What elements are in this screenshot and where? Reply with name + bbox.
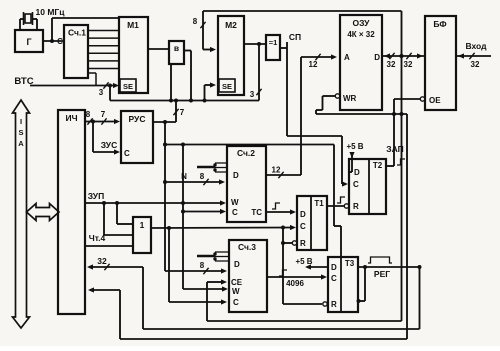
svg-text:OE: OE: [429, 96, 441, 105]
svg-text:БФ: БФ: [433, 19, 446, 29]
svg-text:W: W: [232, 287, 240, 296]
svg-text:D: D: [374, 53, 380, 62]
svg-text:CE: CE: [231, 278, 243, 287]
svg-text:ЗУП: ЗУП: [88, 191, 104, 201]
svg-text:32: 32: [404, 60, 413, 69]
svg-text:СП: СП: [289, 32, 301, 42]
svg-text:R: R: [353, 202, 359, 211]
svg-text:32: 32: [97, 256, 107, 266]
svg-text:10 МГц: 10 МГц: [36, 7, 66, 17]
svg-text:C: C: [124, 149, 130, 158]
svg-text:Т3: Т3: [345, 259, 355, 268]
svg-text:N: N: [181, 172, 187, 181]
svg-text:WR: WR: [343, 94, 357, 103]
svg-text:ТС: ТС: [251, 208, 262, 217]
svg-text:3: 3: [99, 88, 104, 97]
svg-text:+5 В: +5 В: [346, 142, 363, 151]
svg-text:C: C: [331, 274, 337, 283]
svg-text:Т1: Т1: [314, 199, 324, 208]
svg-text:Т2: Т2: [373, 161, 383, 170]
svg-text:12: 12: [309, 60, 318, 69]
svg-text:8: 8: [86, 110, 91, 119]
svg-text:C: C: [300, 222, 306, 231]
svg-text:R: R: [331, 300, 337, 309]
svg-text:32: 32: [387, 60, 396, 69]
svg-text:Сч.3: Сч.3: [238, 242, 256, 252]
svg-text:SE: SE: [123, 82, 133, 91]
svg-text:Г: Г: [26, 37, 31, 47]
svg-text:Чт.4: Чт.4: [89, 233, 106, 243]
svg-text:D: D: [300, 210, 306, 219]
svg-text:ИЧ: ИЧ: [65, 113, 77, 123]
svg-text:М1: М1: [127, 20, 139, 30]
svg-text:C: C: [353, 180, 359, 189]
svg-text:3: 3: [250, 90, 255, 99]
svg-text:=1: =1: [269, 38, 278, 47]
svg-text:32: 32: [471, 60, 480, 69]
svg-text:W: W: [231, 198, 239, 207]
svg-text:D: D: [233, 171, 239, 180]
svg-text:РУС: РУС: [129, 114, 146, 124]
svg-text:Сч.2: Сч.2: [237, 148, 255, 158]
svg-text:C: C: [233, 298, 239, 307]
svg-text:в: в: [174, 43, 179, 53]
svg-text:Вход: Вход: [465, 41, 487, 51]
svg-text:1: 1: [140, 220, 145, 230]
svg-text:+5 В: +5 В: [295, 257, 312, 266]
svg-text:D: D: [331, 263, 337, 272]
svg-text:4К × 32: 4К × 32: [347, 30, 375, 39]
svg-text:ЗУС: ЗУС: [101, 140, 117, 150]
svg-text:8: 8: [200, 172, 205, 181]
svg-text:ЗАП: ЗАП: [386, 144, 403, 154]
svg-text:Сч.1: Сч.1: [68, 28, 86, 38]
svg-text:A: A: [18, 139, 24, 148]
svg-text:ОЗУ: ОЗУ: [353, 18, 371, 28]
svg-text:D: D: [234, 260, 240, 269]
svg-text:S: S: [18, 128, 23, 137]
svg-text:8: 8: [193, 17, 198, 26]
svg-text:I: I: [20, 117, 22, 126]
svg-text:SE: SE: [222, 82, 232, 91]
svg-text:8: 8: [200, 261, 205, 270]
svg-text:РЕГ: РЕГ: [374, 269, 390, 279]
svg-text:7: 7: [180, 108, 185, 117]
svg-text:7: 7: [101, 110, 106, 119]
svg-text:C: C: [232, 208, 238, 217]
svg-text:4096: 4096: [286, 279, 304, 288]
svg-text:D: D: [354, 168, 360, 177]
svg-text:М2: М2: [225, 20, 237, 30]
svg-text:A: A: [344, 53, 350, 62]
svg-text:12: 12: [272, 166, 281, 175]
svg-text:R: R: [300, 239, 306, 248]
